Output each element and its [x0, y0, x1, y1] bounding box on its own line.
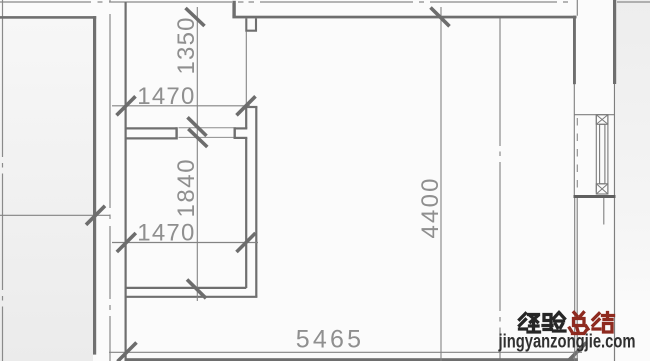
tick right of 1470 bottom — [237, 233, 256, 252]
tick left of 1470 bottom — [117, 233, 136, 252]
dim line 5465 — [109, 351, 582, 353]
watermark chinese characters — [520, 313, 614, 334]
svg-text:4400: 4400 — [417, 176, 444, 238]
inner wall left segment top line — [126, 127, 178, 129]
balcony left double line b — [576, 198, 578, 361]
thin line above right wall corner — [576, 0, 578, 16]
inner room bottom wall bottom line — [126, 296, 257, 298]
tick right of 1470 top — [237, 96, 256, 115]
left room right wall — [93, 16, 96, 355]
inner wall left segment end cap — [175, 127, 177, 139]
opening lintel top thin line — [179, 127, 234, 129]
char jing — [520, 314, 540, 333]
right boundary thin line mid — [614, 84, 616, 195]
balcony threshold bar — [574, 195, 616, 198]
centerline vertical x=500 — [499, 18, 501, 361]
tick on left dim — [86, 206, 105, 225]
vertical dim chain line x=197 — [196, 7, 198, 301]
window frame right line — [607, 115, 609, 193]
tick left of 1470 top — [117, 96, 136, 115]
dim line 4400 vertical — [440, 7, 442, 361]
inner room vertical wall right line — [255, 107, 257, 297]
window bottom mullion box — [596, 184, 608, 194]
svg-text:5465: 5465 — [296, 325, 364, 353]
left room top wall — [0, 16, 96, 19]
balcony right line — [614, 198, 616, 361]
main room left wall — [125, 2, 127, 361]
balcony left double line a — [574, 198, 576, 361]
bottom wall of plan — [126, 358, 578, 361]
window sill top line — [574, 114, 615, 116]
char jie — [593, 313, 614, 333]
inner room vertical wall top cap — [245, 106, 257, 108]
inner wall stub right cap — [233, 127, 235, 139]
window top mullion box — [596, 115, 608, 125]
svg-text:1350: 1350 — [173, 16, 200, 74]
svg-text:1840: 1840 — [173, 158, 200, 218]
centerline vertical left edge — [2, 0, 4, 361]
inner room vertical wall left line — [245, 106, 247, 288]
dim line 1470 bottom — [112, 242, 258, 244]
centerline horizontal top — [0, 1, 650, 3]
left room floor fill — [0, 18, 93, 361]
dim line 1470 top — [112, 105, 250, 107]
svg-text:1470: 1470 — [137, 83, 195, 110]
balcony short line — [603, 198, 605, 225]
top wall riser to image edge — [232, 1, 235, 16]
tick bottom of 1350 — [188, 117, 207, 136]
window top box X — [596, 115, 608, 125]
window jamb solid thin line x=574 — [573, 84, 575, 195]
inner room bottom wall top line — [126, 287, 246, 289]
inner wall stub right of opening bottom line — [234, 137, 248, 139]
svg-text:jingyanzongjie.com: jingyanzongjie.com — [498, 332, 636, 353]
centerline vertical x=110 — [109, 0, 111, 361]
tick top of 1350 — [186, 8, 205, 26]
hidden wall dashed x=577 — [576, 118, 578, 193]
svg-text:1470: 1470 — [137, 220, 195, 247]
right outer wall upper segment — [613, 0, 616, 84]
extension line from stub to dim — [245, 32, 247, 107]
inner wall left segment bottom line — [126, 137, 178, 139]
tick left of 5465 — [118, 343, 137, 361]
tick top of 4400 — [431, 8, 450, 27]
tick top of 1840 — [188, 129, 207, 147]
main top wall — [232, 16, 576, 19]
window pane — [600, 124, 605, 184]
left dim line y=215 — [0, 214, 110, 216]
char zong — [570, 313, 589, 334]
tick bottom of 1840 — [187, 280, 206, 299]
wall stub below top wall — [246, 18, 256, 30]
tick right of 5465 — [568, 343, 587, 361]
char yan — [543, 313, 565, 332]
window bottom box X — [596, 184, 608, 194]
opening lintel bottom thin line — [179, 136, 234, 138]
window frame left line — [595, 115, 597, 193]
right exterior strip fill — [616, 0, 650, 300]
right wall upper segment — [573, 16, 576, 85]
inner wall stub right of opening top line — [234, 127, 248, 129]
